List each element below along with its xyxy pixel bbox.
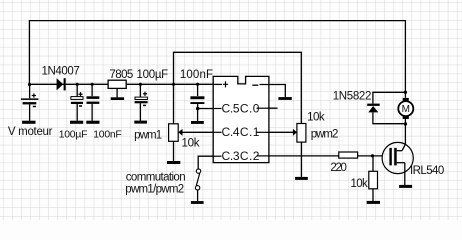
wire pwm1 bottom lead xyxy=(173,141,175,161)
switch lever xyxy=(196,173,199,185)
node motor bottom / drain junction xyxy=(404,122,407,125)
node C3 junction on rail xyxy=(91,83,94,86)
wire battery bottom lead xyxy=(29,104,31,121)
svg-text:V moteur: V moteur xyxy=(8,126,53,138)
wire C5 100nF bottom lead and ground drop xyxy=(197,104,199,121)
switch commutation contact top xyxy=(196,169,200,173)
resistor R3 220 body xyxy=(339,152,358,158)
ground battery xyxy=(22,121,35,124)
svg-text:IRL540: IRL540 xyxy=(410,165,444,177)
svg-text:100µF: 100µF xyxy=(137,69,169,81)
wire C2 100uF bottom lead xyxy=(76,104,78,121)
ground C4 xyxy=(134,121,147,124)
Q1 source stub xyxy=(397,162,405,164)
svg-text:C.0: C.0 xyxy=(240,101,260,115)
svg-text:C.5: C.5 xyxy=(222,101,240,115)
C4 minus sign xyxy=(143,104,146,106)
diode D2 1N5822 xyxy=(367,104,380,113)
wire switch bottom lead xyxy=(197,190,199,201)
pin C.4 stub inside xyxy=(213,131,221,133)
C4 plus sign xyxy=(143,92,147,96)
wire pin C.4 to pwm1 wiper xyxy=(182,131,222,133)
pin C.0 stub inside xyxy=(257,107,269,109)
wire C3 100nF bottom lead xyxy=(91,104,93,121)
IC U1 box with notch xyxy=(213,76,269,162)
wire motor bottom to mosfet drain xyxy=(402,118,405,151)
ground C5 xyxy=(191,121,204,124)
wire 10k pulldown leads xyxy=(372,156,374,201)
pin C.3 stub inside xyxy=(213,155,221,157)
node motor top / flyback junction xyxy=(404,91,407,94)
ground pwm1 xyxy=(167,161,180,164)
node C2 junction on rail xyxy=(76,83,79,86)
svg-text:C.2: C.2 xyxy=(240,149,260,163)
wire pin C.5 to C5 junction xyxy=(198,108,222,110)
ground C2 xyxy=(70,121,83,124)
wire mosfet source to ground xyxy=(404,163,406,185)
wire pin C.3 to switch xyxy=(198,156,221,169)
pin - symbol xyxy=(252,84,258,86)
wire flyback diode loop top xyxy=(373,92,406,103)
svg-text:C.3: C.3 xyxy=(222,149,240,163)
wire C4 100uF bottom lead xyxy=(139,103,141,121)
wire C5 100nF top lead xyxy=(197,84,199,96)
ground R4 xyxy=(367,201,380,204)
svg-text:7805: 7805 xyxy=(109,69,133,81)
node pot branch junction on 5V rail xyxy=(172,83,175,86)
node C5/C.5 ground junction xyxy=(196,107,200,111)
wire pin C.1 to pwm2 wiper xyxy=(257,131,294,133)
pin - lead to ground xyxy=(260,85,286,98)
pin C.1 stub inside xyxy=(257,131,269,133)
wire main supply rail xyxy=(29,83,222,85)
switch contact bottom xyxy=(195,186,199,190)
potentiometer pwm1 body xyxy=(169,124,179,142)
node C5 junction on 5V rail xyxy=(196,83,199,86)
motor M top brush xyxy=(403,98,409,101)
node battery tap junction xyxy=(28,83,31,86)
battery plus sign xyxy=(32,93,36,97)
pwm1 wiper arrow xyxy=(178,129,182,136)
transistor Q1 IRL540 circle xyxy=(382,142,413,173)
svg-text:100nF: 100nF xyxy=(93,130,121,141)
svg-text:pwm1/pwm2: pwm1/pwm2 xyxy=(125,184,184,196)
pin + symbol xyxy=(223,81,228,87)
svg-text:commutation: commutation xyxy=(126,172,186,184)
svg-text:1N4007: 1N4007 xyxy=(42,66,80,78)
battery minus sign xyxy=(33,106,36,108)
pwm2 wiper arrow xyxy=(293,129,297,136)
ground Q1 source xyxy=(399,185,412,188)
wire top rail from V+ corner to motor corner xyxy=(29,21,405,98)
wire battery top lead xyxy=(29,84,31,98)
C2 plus sign xyxy=(78,92,82,96)
svg-text:220: 220 xyxy=(330,162,347,174)
Q1 drain stub xyxy=(397,150,402,152)
motor M body circle xyxy=(398,101,413,116)
node gate divider junction xyxy=(371,154,374,157)
wire 7805 ground lead xyxy=(116,88,118,97)
wire C3 100nF top lead xyxy=(91,84,93,96)
capacitor C3 100nF plates xyxy=(87,96,100,104)
wire C2 100uF top lead xyxy=(76,84,78,96)
wire C4 100uF top lead xyxy=(139,84,141,97)
ground IC minus pin xyxy=(278,97,291,100)
resistor R4 10k body xyxy=(369,171,378,189)
svg-text:M: M xyxy=(402,104,410,115)
potentiometer pwm2 body xyxy=(297,124,306,143)
svg-text:C.4: C.4 xyxy=(222,125,240,139)
Q1 channel bar xyxy=(394,148,397,166)
svg-text:pwm1: pwm1 xyxy=(134,130,162,142)
capacitor C4 100uF plates xyxy=(135,97,148,103)
wire pin C.0 stub xyxy=(257,107,278,109)
ground switch xyxy=(191,201,204,204)
node C4 junction on 5V rail xyxy=(139,83,142,86)
capacitor C2 100uF plates xyxy=(71,97,83,104)
svg-text:100µF: 100µF xyxy=(59,130,88,141)
wire pin C.2 to gate network xyxy=(257,155,383,157)
C2 minus sign xyxy=(79,105,82,107)
motor M bottom brush xyxy=(403,116,409,119)
svg-text:10k: 10k xyxy=(307,111,325,123)
capacitor C5 100nF plates xyxy=(190,96,204,104)
wire 5V branch to pots: up from rail, across, down to pwm2 xyxy=(174,52,302,124)
pin C.2 stub inside xyxy=(257,155,269,157)
svg-text:pwm2: pwm2 xyxy=(311,128,339,140)
regulator 7805 box xyxy=(108,80,126,88)
diode D1 1N4007 xyxy=(57,78,66,90)
svg-text:1N5822: 1N5822 xyxy=(333,91,372,103)
ground C3 xyxy=(86,121,99,124)
wire pwm2 bottom lead xyxy=(300,142,302,177)
battery V moteur plates xyxy=(21,98,39,104)
pin + lead inside xyxy=(213,83,222,85)
svg-text:10k: 10k xyxy=(351,178,368,190)
svg-text:100nF: 100nF xyxy=(180,69,213,81)
Q1 gate bar xyxy=(389,148,391,166)
pin C.5 stub inside xyxy=(213,108,221,110)
svg-text:C.1: C.1 xyxy=(240,125,260,139)
ground 7805 xyxy=(111,97,124,100)
svg-text:10k: 10k xyxy=(182,138,200,150)
ground pwm2 xyxy=(295,177,308,180)
wire flyback diode loop bottom xyxy=(373,112,406,123)
